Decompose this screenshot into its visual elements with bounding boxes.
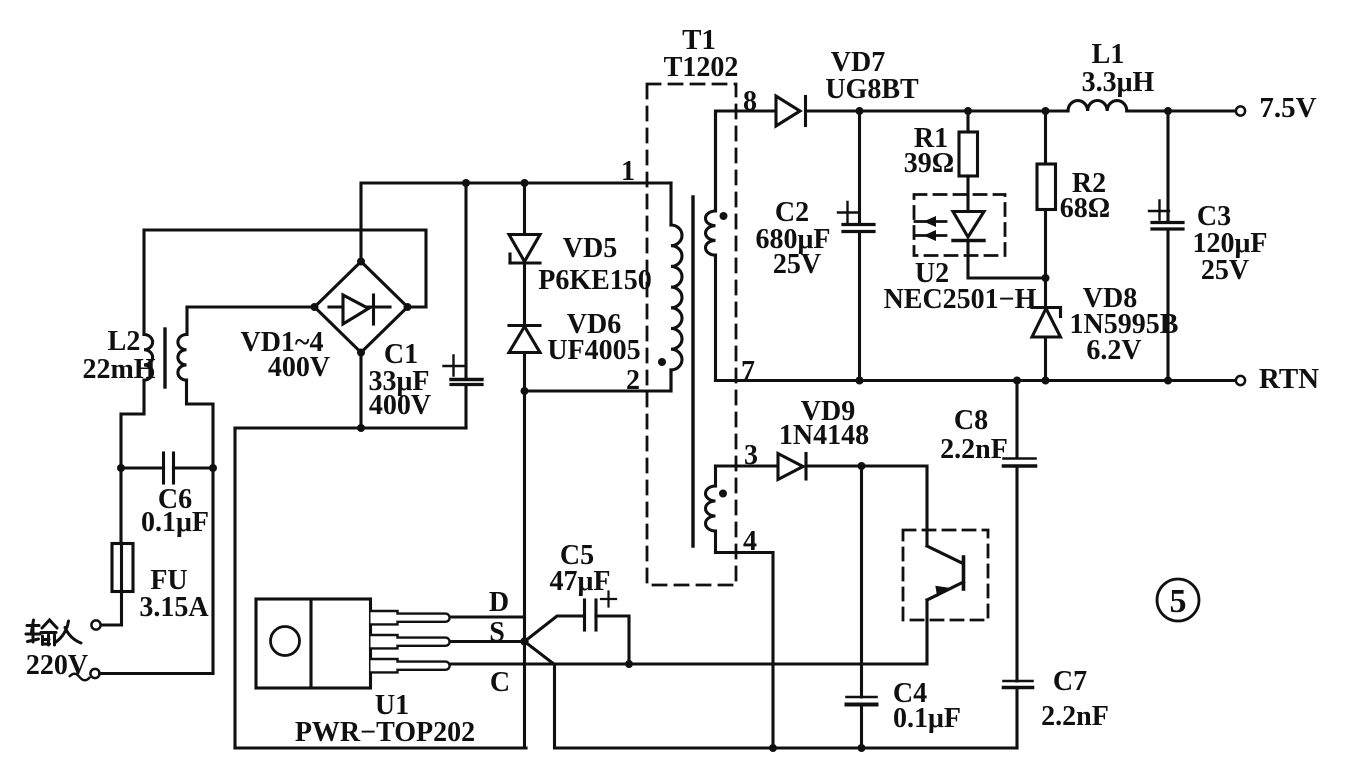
net label input (Chinese shu-ru): [26, 620, 81, 645]
junction bridge bottom vertex: [357, 349, 365, 357]
junction clamp top on rail: [521, 179, 529, 187]
node bias winding polarity dot: [719, 490, 727, 498]
svg-text:T1202: T1202: [664, 52, 739, 83]
svg-text:S: S: [489, 617, 505, 648]
terminal 7.5V output: [1236, 106, 1245, 115]
junction bridge top vertex: [357, 258, 365, 266]
svg-text:4: 4: [743, 526, 757, 557]
wire C5 to control line: [596, 616, 629, 664]
wire pin C control line to optocoupler emitter: [450, 662, 926, 665]
wire bottom common rail: [555, 746, 1017, 749]
wire transformer pin 3 to VD9 anode: [716, 464, 779, 467]
svg-text:39Ω: 39Ω: [904, 148, 954, 179]
svg-text:2.2nF: 2.2nF: [1041, 701, 1109, 732]
junction pin 4 wire on bottom rail: [769, 744, 777, 752]
wire source node diagonal down to bottom rail: [525, 642, 555, 749]
diode VD5 transient suppressor: [509, 235, 540, 264]
wire C7 bottom to bottom rail: [1015, 688, 1018, 748]
wire U1 box left edge: [233, 428, 236, 748]
junction C2 bottom on RTN rail: [856, 377, 864, 385]
svg-text:25V: 25V: [1201, 255, 1249, 286]
wire L2 left winding down to C6 left node: [121, 380, 144, 468]
wire C2 bottom to RTN rail: [858, 233, 861, 381]
capacitor C8: [1004, 459, 1036, 467]
net input 220V tilde mark: [69, 674, 90, 681]
wire R2 to feedback node: [1044, 210, 1047, 307]
phototransistor of optocoupler U2: [927, 546, 964, 600]
capacitor C5: [585, 592, 617, 631]
capacitor C4: [847, 697, 877, 705]
wire 7.5V output rail VD7 to L1: [806, 109, 1069, 112]
optocoupler U2 phototransistor dashed outline: [903, 530, 988, 620]
svg-text:68Ω: 68Ω: [1060, 193, 1110, 224]
wire R1 to U2 LED anode: [966, 176, 969, 212]
svg-text:2.2nF: 2.2nF: [940, 434, 1008, 465]
junction bridge minus on bus: [357, 424, 365, 432]
svg-text:0.1μF: 0.1μF: [141, 507, 209, 538]
wire bias node down to C4: [860, 466, 863, 697]
node secondary 8-7 polarity dot: [720, 212, 728, 220]
inductor L1: [1068, 101, 1127, 112]
svg-text:8: 8: [743, 86, 757, 117]
fuse FU: [112, 544, 133, 592]
svg-text:3: 3: [744, 440, 758, 471]
wire U2 LED cathode to feedback node: [968, 242, 1046, 279]
capacitor C7: [1004, 681, 1033, 688]
junction bridge left vertex: [311, 303, 319, 311]
optocoupler U2 LED dashed outline: [914, 195, 1005, 256]
wire rail down to C3: [1166, 111, 1169, 221]
wire C8 bottom to C7 top: [1015, 467, 1018, 682]
wire rail down to C2: [858, 111, 861, 223]
junction VD8 on RTN rail: [1042, 377, 1050, 385]
junction C3 bottom on RTN rail: [1164, 377, 1172, 385]
wire top rail from bridge to transformer pin 1: [361, 183, 671, 261]
wire transformer pin 2 to drain node: [525, 370, 672, 391]
wire C6 node down to fuse: [119, 468, 122, 544]
svg-text:PWR−TOP202: PWR−TOP202: [295, 717, 475, 748]
transformer T1 core: [691, 197, 694, 546]
junction source node S: [520, 637, 528, 645]
wire rail down to R2: [1044, 111, 1047, 164]
junction C4 on bottom rail: [858, 744, 866, 752]
svg-text:UG8BT: UG8BT: [825, 74, 919, 105]
wire VD9 cathode to bias node: [806, 464, 862, 467]
wire source node diagonal up to C5: [525, 616, 585, 642]
wire input lower terminal to C6 right branch: [100, 672, 214, 675]
pin D lead of U1: [371, 611, 450, 624]
terminal RTN: [1236, 376, 1245, 385]
svg-text:L2: L2: [108, 326, 141, 357]
capacitor C6: [164, 453, 174, 483]
svg-text:1N4148: 1N4148: [779, 420, 869, 451]
svg-text:NEC2501−H: NEC2501−H: [884, 284, 1037, 315]
wire C3 bottom to RTN rail: [1166, 231, 1169, 381]
junction C1 top on rail: [462, 179, 470, 187]
capacitor C3: [1149, 201, 1183, 230]
wire C1 bottom to DC minus bus: [464, 385, 467, 428]
wire rail down to C1: [464, 183, 467, 378]
wire C4 bottom to bottom rail: [860, 705, 863, 748]
terminal input upper: [91, 620, 100, 629]
svg-text:1: 1: [621, 156, 635, 187]
wire L1 to 7.5V terminal: [1127, 109, 1236, 112]
junction drain / transformer pin 2: [521, 387, 529, 395]
diode VD8 zener: [1032, 300, 1061, 338]
svg-text:400V: 400V: [369, 390, 431, 421]
junction C3 top: [1164, 107, 1172, 115]
svg-text:2: 2: [626, 365, 640, 396]
svg-text:C7: C7: [1053, 666, 1087, 697]
svg-text:P6KE150: P6KE150: [538, 265, 652, 296]
resistor R2: [1037, 164, 1056, 210]
junction C6 right: [209, 464, 217, 472]
wire fuse to input terminal upper: [101, 592, 122, 626]
svg-text:7: 7: [741, 356, 755, 387]
svg-text:3.15A: 3.15A: [139, 592, 209, 623]
schematic figure number 5: [1157, 579, 1199, 621]
resistor R1: [959, 132, 978, 176]
wire RTN rail down to C8: [1015, 381, 1018, 459]
svg-text:7.5V: 7.5V: [1259, 92, 1316, 124]
wire bridge right vertex up and left to L2 left winding: [144, 230, 426, 335]
svg-text:L1: L1: [1092, 39, 1125, 70]
capacitor C2: [838, 202, 874, 232]
wire bridge bottom to DC minus bus: [359, 353, 362, 429]
junction C8 top on RTN rail: [1013, 377, 1021, 385]
wire DC minus bus (U1 box top edge): [235, 426, 466, 429]
svg-text:0.1μF: 0.1μF: [893, 703, 961, 734]
wire U1 box bottom edge: [235, 746, 526, 749]
wire C6 left lead: [121, 466, 164, 469]
wire drain vertical / U1 box right edge: [523, 391, 526, 748]
junction bias supply node: [858, 462, 866, 470]
wire rail down to R1: [966, 111, 969, 132]
transistor U1 TOP202 package: [256, 599, 371, 688]
svg-text:UF4005: UF4005: [547, 335, 640, 366]
svg-text:D: D: [489, 587, 509, 618]
svg-text:25V: 25V: [773, 249, 821, 280]
diode VD9: [778, 454, 806, 480]
svg-text:47μF: 47μF: [550, 566, 611, 597]
svg-text:3.3μH: 3.3μH: [1082, 67, 1155, 98]
wire transformer pin 4 down to common rail: [716, 553, 774, 749]
wire bias node to optocoupler collector: [862, 466, 928, 546]
junction R2 top: [1042, 107, 1050, 115]
transformer T1 bias winding pins 3-4: [706, 466, 716, 553]
wire transformer pin 8 to VD7 anode: [716, 111, 777, 211]
wire pin S to source node: [450, 640, 525, 643]
LED of optocoupler U2: [915, 212, 984, 242]
wire RTN rail transformer pin 7 to RTN terminal: [716, 379, 1237, 382]
pin S lead of U1: [371, 635, 450, 648]
svg-text:22mH: 22mH: [82, 354, 155, 385]
capacitor C1: [444, 356, 483, 385]
wire rail down to VD5: [523, 183, 526, 235]
svg-text:C: C: [490, 667, 510, 698]
junction R1 top: [964, 107, 972, 115]
wire bridge left vertex to L2 right winding: [187, 307, 315, 335]
wire C6 right lead: [174, 466, 214, 469]
wire VD5 to VD6: [523, 263, 526, 326]
wire L2 right winding down to C6 right node and input line: [187, 380, 214, 674]
pin C lead of U1: [371, 659, 450, 672]
junction C2 top: [856, 107, 864, 115]
wire optocoupler emitter down to control line: [925, 600, 928, 664]
junction bridge right vertex: [404, 303, 412, 311]
svg-text:6.2V: 6.2V: [1086, 335, 1141, 366]
junction C6 left: [117, 464, 125, 472]
svg-text:VD5: VD5: [563, 233, 617, 264]
wire VD8 anode to RTN rail: [1044, 337, 1047, 381]
node primary polarity dot: [658, 358, 666, 366]
diode VD6: [509, 326, 540, 353]
bridge rectifier VD1~4: [315, 262, 408, 353]
transformer T1 dashed outline: [647, 84, 736, 585]
svg-text:C8: C8: [954, 405, 988, 436]
diode VD7: [776, 96, 806, 126]
transformer T1 primary winding pins 1-2: [671, 183, 682, 391]
svg-text:5: 5: [1170, 583, 1187, 620]
terminal input lower: [90, 669, 99, 678]
junction C5 on control line: [625, 660, 633, 668]
svg-text:400V: 400V: [268, 352, 330, 383]
wire VD6 anode to drain node: [523, 353, 526, 392]
transformer T1 secondary winding pins 8-7: [706, 111, 716, 381]
junction feedback node: [1042, 274, 1050, 282]
inductor L2 common-mode choke: [144, 329, 187, 387]
svg-text:RTN: RTN: [1259, 363, 1319, 395]
wire pin D to drain line: [450, 615, 525, 618]
